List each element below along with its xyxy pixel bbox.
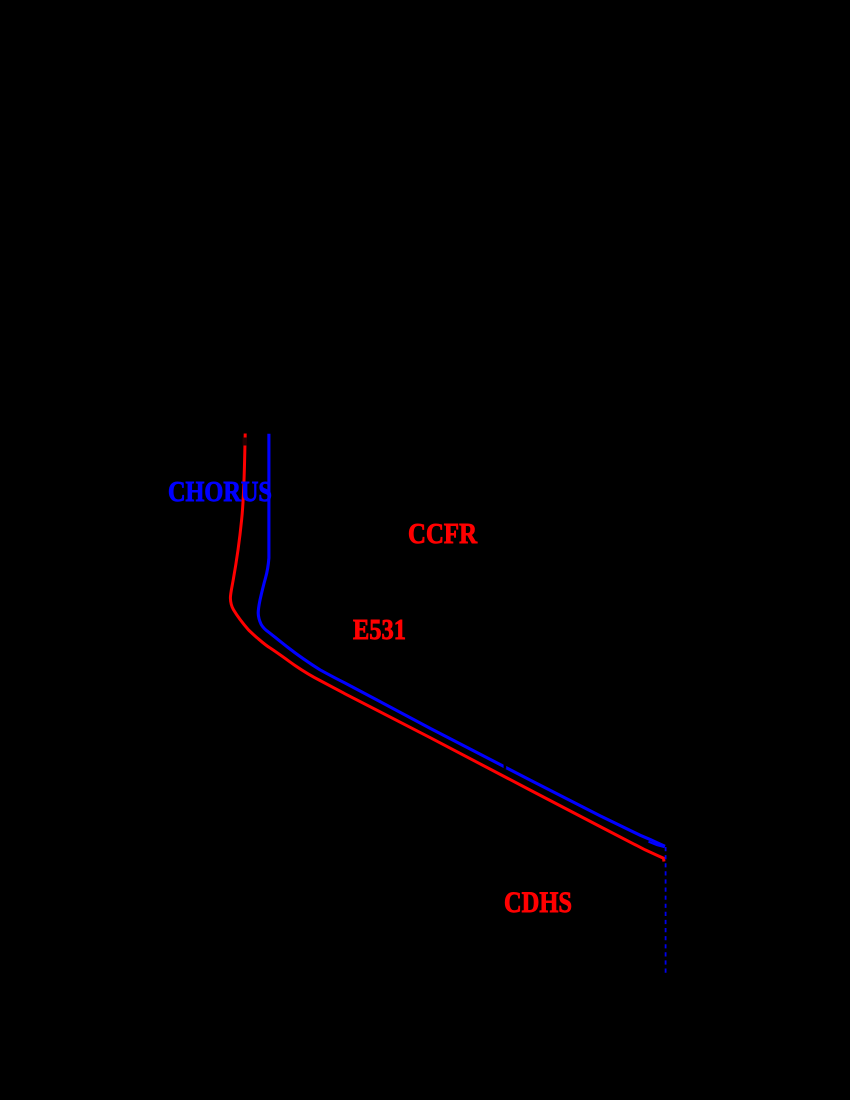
blue CHORUS exclusion curve <box>258 434 665 847</box>
small gap artifact on blue diagonal <box>504 764 507 769</box>
svg-text:CDHS: CDHS <box>504 886 572 919</box>
red exclusion curve (CCFR/E531/CDHS combined limit) <box>230 434 664 862</box>
svg-text:E531: E531 <box>353 613 406 645</box>
blue dashed vertical boundary <box>665 847 667 976</box>
blue curve end hook segment <box>649 842 665 848</box>
svg-text:CCFR: CCFR <box>408 517 477 549</box>
dark gap artifact on red curve top <box>243 438 247 446</box>
svg-text:CHORUS: CHORUS <box>168 476 272 507</box>
